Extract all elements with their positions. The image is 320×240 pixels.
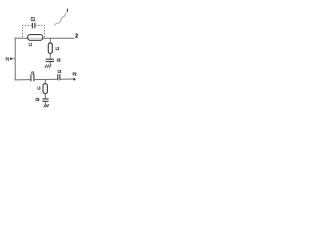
wire C2 to ground bbox=[49, 62, 51, 65]
svg-text:C2: C2 bbox=[57, 58, 61, 64]
svg-text:P2: P2 bbox=[73, 72, 77, 78]
wire right shunt vertical bbox=[49, 38, 51, 59]
svg-text:2: 2 bbox=[75, 34, 78, 40]
capacitor C1 bbox=[32, 23, 34, 29]
wire P1 stub bbox=[11, 58, 15, 60]
svg-text:L1: L1 bbox=[29, 42, 33, 47]
port P2 terminal bbox=[73, 78, 75, 80]
svg-text:C1: C1 bbox=[31, 17, 36, 23]
wire bottom horizontal middle bbox=[34, 78, 58, 80]
svg-text:L3: L3 bbox=[37, 86, 40, 91]
wire C5 to ground bbox=[44, 101, 46, 104]
wire left vertical bbox=[14, 38, 16, 81]
inductor L2 bbox=[48, 43, 52, 53]
dashed wire C1 left lead bbox=[23, 25, 32, 38]
wire bottom horizontal left bbox=[15, 79, 31, 81]
dashed wire C1 right lead bbox=[35, 25, 44, 38]
inductor L1 bbox=[28, 35, 43, 41]
capacitor C4 bbox=[58, 74, 60, 80]
port P1 terminal bbox=[10, 58, 12, 60]
ground (bottom shunt) bbox=[44, 104, 49, 107]
inductor L3 bbox=[43, 84, 47, 94]
capacitor C5 bbox=[42, 99, 48, 101]
svg-text:C5: C5 bbox=[36, 97, 40, 102]
capacitor C2 bbox=[46, 59, 54, 61]
svg-text:L2: L2 bbox=[56, 46, 60, 52]
wire bottom shunt vertical bbox=[44, 80, 46, 99]
svg-text:P1: P1 bbox=[6, 56, 10, 62]
leader line to figure 1 bbox=[55, 13, 67, 26]
figure number 1 bbox=[66, 8, 68, 12]
wire bottom horizontal right bbox=[60, 78, 74, 80]
wire top horizontal bbox=[15, 37, 75, 39]
ground (right shunt) bbox=[45, 65, 51, 68]
capacitor C3 bbox=[31, 75, 34, 82]
